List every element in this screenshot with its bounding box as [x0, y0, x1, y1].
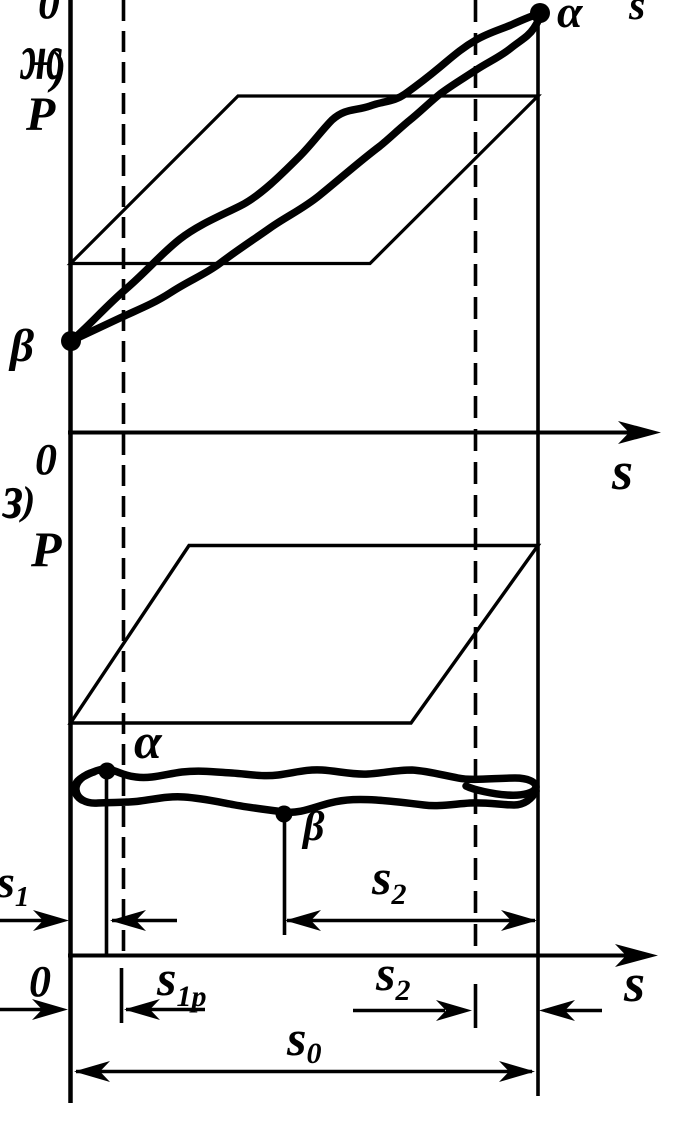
- dashed vertical line x=123: [122, 0, 126, 956]
- dimension s1p: right arrow: [126, 1008, 205, 1011]
- thick curve (lower branch) from β to α, figure ж): [71, 15, 541, 341]
- dimension s1: left arrow: [0, 919, 44, 922]
- svg-text:s1p: s1p: [156, 950, 206, 1013]
- svg-text:β: β: [8, 320, 34, 372]
- s axis of figure з) with arrowhead: [68, 954, 647, 958]
- dimension s0: line with outward arrows: [76, 1070, 532, 1073]
- extension line below β (figure з): [283, 818, 287, 935]
- label ж): [19, 22, 63, 95]
- dimension s2 upper: line with outward arrows: [287, 919, 535, 922]
- point α (figure ж): [530, 3, 550, 23]
- svg-text:s: s: [628, 0, 645, 29]
- svg-text:α: α: [134, 713, 163, 769]
- svg-text:з: з: [1, 461, 23, 533]
- svg-text:s2: s2: [371, 849, 406, 911]
- dashed line x=123 extension below axis: [120, 968, 124, 1023]
- dashed vertical line x=475: [474, 0, 478, 956]
- svg-text:0: 0: [29, 957, 51, 1006]
- svg-text:s1: s1: [0, 856, 29, 913]
- svg-text:s: s: [611, 441, 633, 501]
- point β (figure ж): [61, 331, 81, 351]
- svg-text:P: P: [30, 521, 62, 577]
- svg-text:β: β: [301, 804, 325, 850]
- parallelogram of figure з): [71, 546, 539, 724]
- point α (figure з): [99, 763, 116, 780]
- label з): [1, 461, 23, 533]
- extension line below α (figure з): [105, 773, 109, 956]
- thick wavy band, lower edge (figure з): [76, 772, 536, 812]
- svg-text:s0: s0: [286, 1010, 321, 1070]
- thick curve (upper branch) from β to α, figure ж): [71, 13, 541, 341]
- dimension s1: right arrow: [112, 919, 177, 922]
- svg-text:s: s: [623, 953, 645, 1013]
- dashed line x=475 extension below axis: [474, 984, 478, 1028]
- s axis of figure ж) with arrowhead: [68, 431, 650, 435]
- svg-text:α: α: [557, 0, 584, 37]
- dimension s2 lower: right arrow: [545, 1009, 602, 1012]
- thick wavy band, upper edge with right end curl (figure з): [75, 769, 536, 800]
- dimension s1p: left arrow: [0, 1008, 42, 1011]
- point β (figure з): [276, 806, 293, 823]
- dimension s2 lower: left arrow: [353, 1009, 445, 1012]
- right boundary vertical line x=538: [536, 12, 540, 1096]
- parallelogram of figure ж): [71, 96, 539, 264]
- svg-text:P: P: [25, 88, 56, 141]
- svg-text:0: 0: [35, 435, 57, 484]
- P axis (vertical, both figures): [68, 0, 73, 1103]
- svg-text:): ): [19, 478, 35, 523]
